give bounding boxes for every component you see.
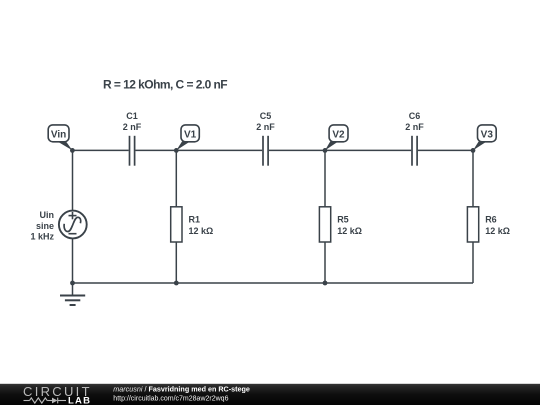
wire top segment Vin to C1 bbox=[73, 149, 129, 151]
svg-text:R1: R1 bbox=[189, 215, 201, 225]
node dot V3 bbox=[471, 148, 476, 153]
svg-text:http://circuitlab.com/c7m28aw2: http://circuitlab.com/c7m28aw2r2wq6 bbox=[113, 396, 228, 403]
node dot V2 bbox=[323, 148, 328, 153]
svg-text:2 nF: 2 nF bbox=[405, 122, 424, 132]
svg-text:12 kΩ: 12 kΩ bbox=[189, 226, 214, 236]
wire top segment C6 to V3 bbox=[418, 149, 473, 151]
junction dot ground rail at source bbox=[70, 281, 75, 286]
capacitor C1 bbox=[123, 111, 142, 166]
ground bbox=[60, 283, 85, 305]
node V1 label bbox=[176, 125, 199, 150]
svg-text:R5: R5 bbox=[337, 215, 349, 225]
wire Vin node down to source bbox=[72, 150, 74, 210]
svg-text:R = 12 kOhm, C = 2.0 nF: R = 12 kOhm, C = 2.0 nF bbox=[103, 78, 227, 92]
footer logo resistor-diode glyph bbox=[24, 398, 67, 404]
svg-text:marcusni / Fasvridning med en: marcusni / Fasvridning med en RC-stege bbox=[113, 384, 250, 393]
wire V1 node down to R1 bbox=[175, 150, 177, 206]
wire R5 bottom to bottom rail bbox=[324, 242, 326, 283]
wire top segment V2 to C6 bbox=[325, 149, 411, 151]
svg-text:V2: V2 bbox=[332, 130, 345, 141]
svg-text:V1: V1 bbox=[184, 130, 197, 141]
voltage source V_Uin sine bbox=[30, 210, 86, 241]
junction dot ground rail at R1 bbox=[174, 281, 179, 286]
junction dot ground rail at R5 bbox=[323, 281, 328, 286]
svg-text:LAB: LAB bbox=[68, 395, 91, 405]
wire top segment C1 to V1 bbox=[135, 149, 176, 151]
svg-text:2 nF: 2 nF bbox=[256, 122, 275, 132]
node dot Vin bbox=[70, 148, 75, 153]
svg-text:C5: C5 bbox=[260, 111, 272, 121]
svg-text:C6: C6 bbox=[409, 111, 421, 121]
wire source bottom to ground junction bbox=[72, 239, 74, 283]
footer bar bbox=[0, 384, 540, 405]
node dot V1 bbox=[174, 148, 179, 153]
svg-text:2 nF: 2 nF bbox=[123, 122, 142, 132]
wire top segment V1 to C5 bbox=[176, 149, 262, 151]
node Vin label bbox=[48, 125, 72, 150]
capacitor C6 bbox=[405, 111, 424, 166]
wire V3 node down to R6 bbox=[472, 150, 474, 206]
svg-text:12 kΩ: 12 kΩ bbox=[485, 226, 510, 236]
svg-text:Uin: Uin bbox=[40, 210, 55, 220]
resistor R1 bbox=[171, 207, 214, 242]
svg-text:V3: V3 bbox=[481, 130, 494, 141]
wire bottom rail bbox=[73, 282, 474, 284]
svg-text:1 kHz: 1 kHz bbox=[30, 232, 54, 242]
wire top segment C5 to V2 bbox=[269, 149, 325, 151]
svg-text:12 kΩ: 12 kΩ bbox=[337, 226, 362, 236]
wire V2 node down to R5 bbox=[324, 150, 326, 206]
capacitor C5 bbox=[256, 111, 275, 166]
node V3 label bbox=[473, 125, 496, 150]
svg-text:R6: R6 bbox=[485, 215, 497, 225]
resistor R5 bbox=[319, 207, 362, 242]
wire R6 bottom to bottom rail bbox=[472, 242, 474, 283]
svg-text:Vin: Vin bbox=[51, 130, 66, 141]
svg-text:C1: C1 bbox=[126, 111, 138, 121]
svg-text:sine: sine bbox=[36, 221, 54, 231]
resistor R6 bbox=[467, 207, 510, 242]
node V2 label bbox=[325, 125, 348, 150]
wire R1 bottom to bottom rail bbox=[175, 242, 177, 283]
